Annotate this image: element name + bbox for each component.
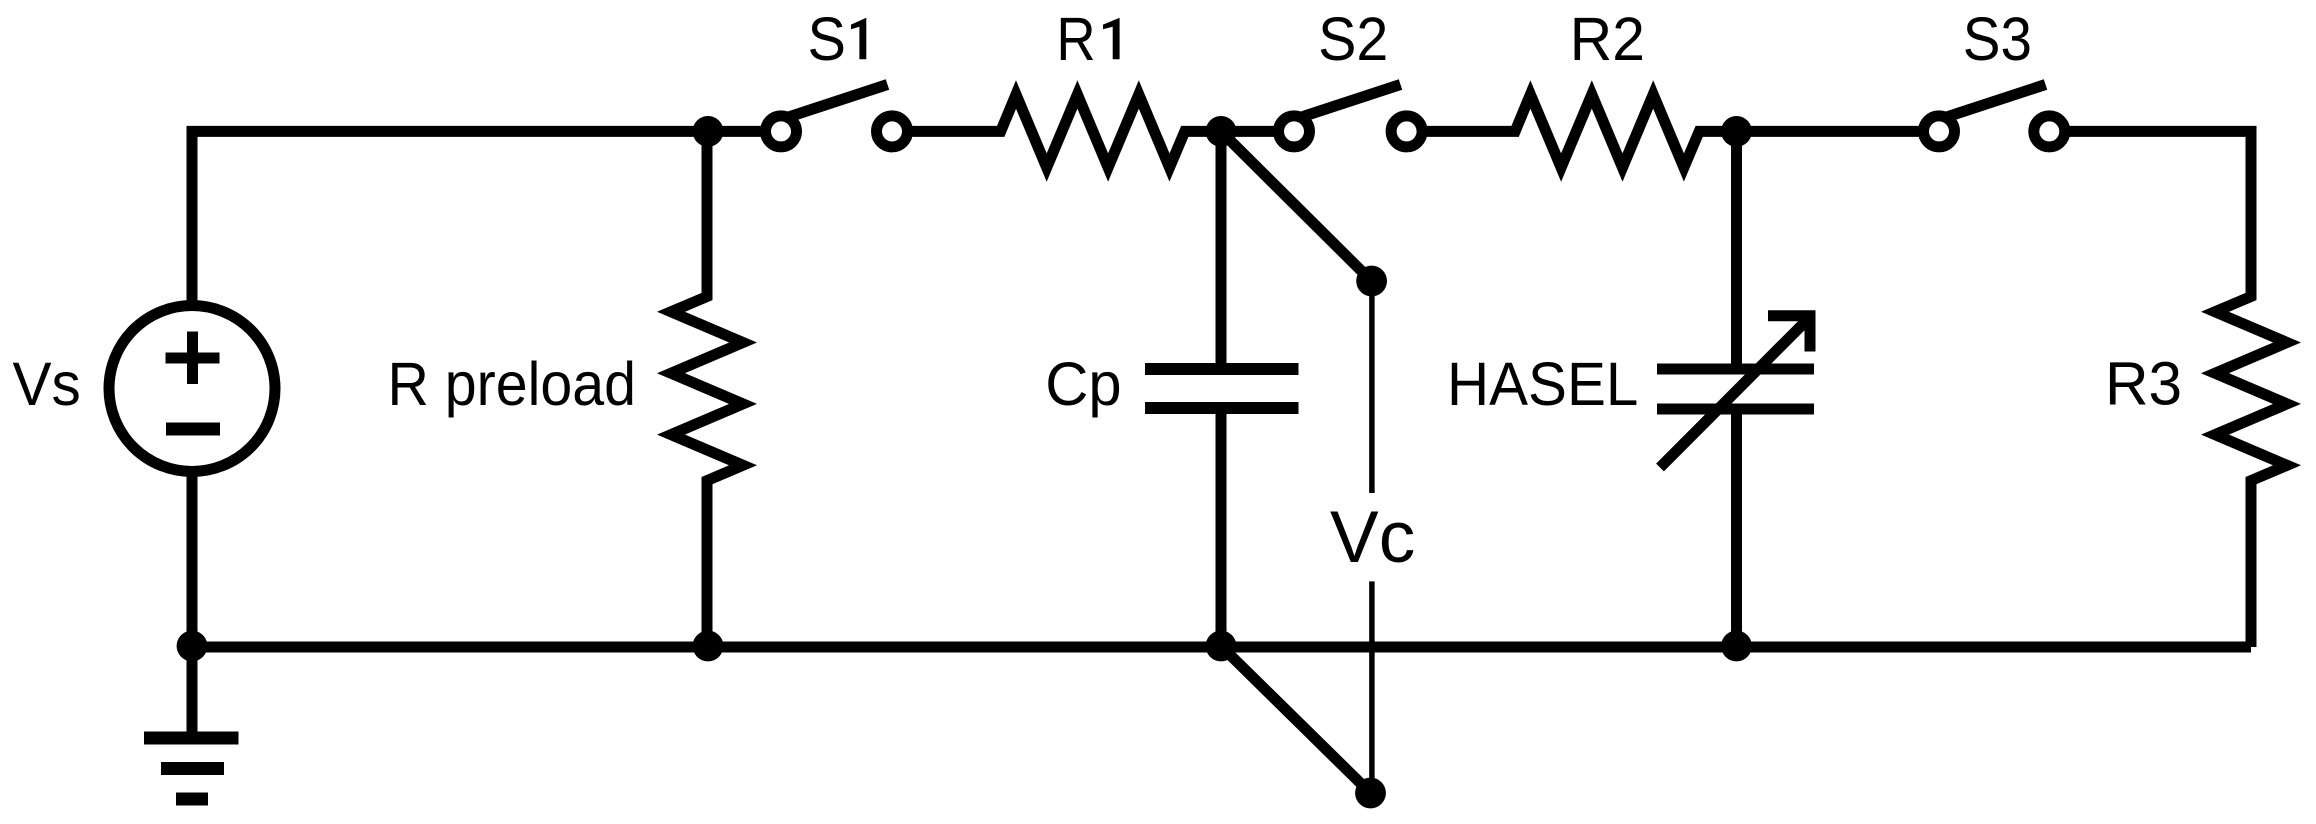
node probe bottom (1355, 778, 1386, 809)
node R preload bottom (693, 631, 724, 662)
probe Vc lower diagonal (1221, 646, 1371, 793)
wire bottom rail (192, 642, 2251, 653)
svg-text:S3: S3 (1963, 5, 2032, 73)
resistor R1 and wire to S2 (892, 95, 1294, 168)
resistor R3 with top corner wire (2049, 131, 2287, 647)
node Cp top (1206, 116, 1237, 147)
voltage source Vs (109, 306, 275, 472)
switch S3 (1924, 85, 2065, 147)
svg-text:R preload: R preload (388, 350, 637, 418)
capacitor HASEL (variable) (1657, 131, 1814, 647)
svg-text:HASEL: HASEL (1447, 350, 1638, 418)
resistor R2 and wire to S3 (1407, 95, 1939, 168)
ground (144, 647, 239, 799)
node probe top (1356, 266, 1387, 297)
wire top-left: source top to S1 (192, 131, 781, 647)
svg-text:S2: S2 (1318, 5, 1388, 73)
node Cp bottom (1206, 631, 1237, 662)
node R preload top (693, 116, 724, 147)
svg-text:R2: R2 (1570, 5, 1645, 73)
capacitor Cp (1145, 131, 1299, 647)
node HASEL top (1721, 116, 1752, 147)
switch S1 (766, 85, 908, 147)
svg-text:S: S (808, 5, 846, 73)
svg-text:Vs: Vs (13, 350, 81, 418)
resistor R preload (671, 131, 743, 647)
svg-text:R3: R3 (2105, 349, 2182, 417)
node HASEL bottom (1721, 631, 1752, 662)
probe Vc thin vertical line (1369, 281, 1375, 793)
svg-text:R: R (1056, 5, 1095, 73)
svg-text:Cp: Cp (1045, 350, 1121, 418)
node ground (177, 631, 208, 662)
probe Vc upper diagonal (1221, 131, 1372, 281)
switch S2 (1279, 85, 1423, 147)
svg-text:Vc: Vc (1330, 497, 1415, 578)
